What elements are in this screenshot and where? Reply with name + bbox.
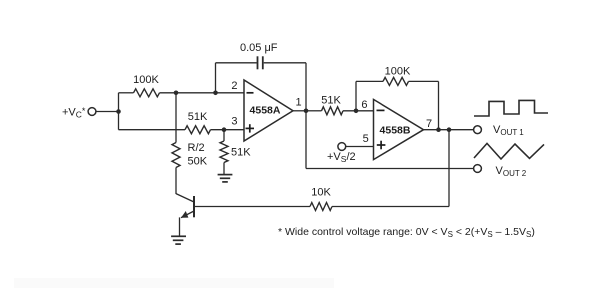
- wire top rail left lead: [119, 92, 134, 94]
- wire bottom rail left: [119, 129, 186, 131]
- wire VS/2 to pin 5: [346, 146, 374, 148]
- svg-text:* Wide control voltage range:: * Wide control voltage range: 0V < VS < …: [278, 226, 535, 239]
- wire fb top left lead: [356, 80, 383, 82]
- wire VOUT2 rail: [306, 168, 474, 170]
- svg-text:4558B: 4558B: [380, 125, 411, 137]
- wire B output: [424, 129, 474, 131]
- ground (emitter): [171, 236, 186, 244]
- svg-text:5: 5: [363, 133, 369, 145]
- wire A output: [293, 110, 306, 112]
- faint strip (scan artifact): [14, 278, 334, 288]
- svg-text:R/2: R/2: [188, 142, 205, 154]
- wire top rail to pin 2: [160, 92, 245, 94]
- svg-text:50K: 50K: [188, 156, 208, 168]
- svg-text:51K: 51K: [188, 111, 208, 123]
- wire input junction vertical: [118, 93, 120, 130]
- svg-text:100K: 100K: [385, 66, 411, 78]
- wire R/2 top lead: [175, 93, 177, 143]
- wire cap right lead: [264, 62, 306, 64]
- op-amp B plus sign: [377, 144, 386, 146]
- wire B output down branch: [448, 130, 450, 207]
- wire cap left lead: [216, 62, 257, 64]
- node +VC input terminal: [88, 108, 96, 116]
- op-amp U1B 4558B: [374, 99, 424, 159]
- wire R/2 bottom to collector: [175, 168, 177, 195]
- capacitor 0.05uF plates: [257, 56, 259, 69]
- svg-text:1: 1: [296, 97, 302, 109]
- op-amp A plus sign: [246, 127, 255, 129]
- wire base rail left: [194, 206, 310, 208]
- wire A output vertical: [305, 63, 307, 169]
- wire input to junction: [96, 111, 119, 113]
- svg-text:51K: 51K: [231, 147, 251, 159]
- node input junction: [116, 109, 121, 114]
- transistor emitter arrow: [181, 210, 189, 218]
- svg-text:100K: 100K: [133, 74, 159, 86]
- op-amp U1A 4558A: [244, 80, 293, 141]
- wire fb right vertical: [438, 81, 440, 129]
- node pin3 junction: [222, 127, 227, 132]
- node B output branch junction: [447, 127, 452, 132]
- node top rail R/2 junction: [174, 91, 179, 96]
- resistor 10K: [310, 203, 332, 211]
- wire A out to 51K: [306, 110, 322, 112]
- triangle wave symbol: [474, 143, 544, 159]
- wire 51K-gnd top lead: [223, 130, 225, 141]
- wire emitter to ground: [179, 217, 181, 236]
- wire 51K-gnd bottom lead: [223, 163, 225, 175]
- resistor 51K to ground: [220, 141, 228, 163]
- svg-text:0.05 μF: 0.05 μF: [240, 42, 278, 54]
- resistor 51K (A to B): [322, 107, 344, 115]
- svg-text:6: 6: [361, 99, 367, 111]
- transistor Q1: [176, 194, 194, 218]
- svg-text:4558A: 4558A: [250, 105, 281, 117]
- resistor R/2 50K: [172, 143, 180, 168]
- op-amp A minus sign: [247, 92, 254, 94]
- resistor 51K (series to pin 3): [185, 126, 211, 134]
- svg-text:51K: 51K: [321, 95, 341, 107]
- svg-text:10K: 10K: [311, 187, 331, 199]
- svg-text:3: 3: [231, 116, 237, 128]
- svg-text:2: 2: [231, 80, 237, 92]
- wire base rail right: [332, 206, 449, 208]
- node A output junction: [304, 109, 309, 114]
- wire 51K to pin 6: [343, 110, 374, 112]
- wire bottom rail to pin 3: [211, 129, 245, 131]
- wire fb top right lead: [409, 80, 439, 82]
- node top rail cap junction: [213, 91, 218, 96]
- ground (51K): [218, 175, 233, 182]
- node B output fb junction: [436, 127, 441, 132]
- wire cap left vertical: [215, 63, 217, 93]
- op-amp B minus sign: [377, 109, 385, 111]
- node VOUT1 terminal: [474, 126, 482, 134]
- svg-text:7: 7: [426, 118, 432, 130]
- square wave symbol: [474, 100, 548, 116]
- node VOUT2 terminal: [474, 165, 482, 173]
- node pin6 junction: [354, 109, 359, 114]
- wire fb left vertical: [355, 81, 357, 110]
- node +VS/2 terminal: [338, 143, 346, 151]
- resistor 100K feedback: [383, 77, 409, 85]
- resistor 100K (input): [134, 89, 160, 97]
